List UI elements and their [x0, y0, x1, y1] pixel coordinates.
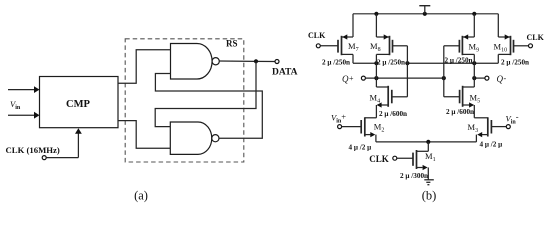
svg-text:CLK: CLK [527, 33, 545, 42]
svg-text:-: - [504, 74, 507, 83]
svg-text:(a): (a) [134, 189, 148, 203]
svg-text:2 μ /250n: 2 μ /250n [377, 58, 405, 66]
svg-text:Q: Q [342, 74, 349, 84]
svg-text:DATA: DATA [272, 68, 298, 78]
svg-text:2 μ /250n: 2 μ /250n [445, 57, 473, 65]
svg-text:4 μ /2 μ: 4 μ /2 μ [349, 144, 372, 152]
svg-text:CLK: CLK [308, 31, 326, 40]
svg-text:4 μ /2 μ: 4 μ /2 μ [480, 141, 503, 149]
svg-text:+: + [349, 74, 354, 83]
svg-text:CLK (16MHz): CLK (16MHz) [6, 145, 60, 155]
svg-text:CMP: CMP [66, 99, 90, 110]
svg-text:CLK: CLK [369, 154, 389, 164]
svg-text:Q: Q [497, 74, 504, 84]
svg-text:RS: RS [226, 38, 238, 48]
svg-text:2 μ /250n: 2 μ /250n [322, 59, 350, 67]
svg-text:2 μ /250n: 2 μ /250n [501, 58, 529, 66]
svg-text:2 μ /600n: 2 μ /600n [379, 110, 407, 118]
svg-text:2 μ /600n: 2 μ /600n [446, 108, 474, 116]
svg-text:(b): (b) [422, 189, 437, 203]
svg-text:2 μ /300n: 2 μ /300n [400, 172, 428, 180]
